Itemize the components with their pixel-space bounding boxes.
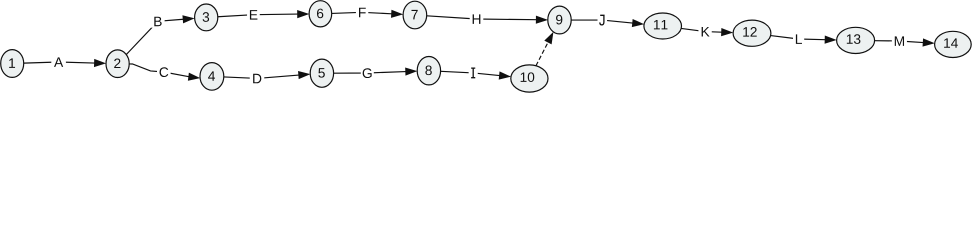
arrowhead into 10 (499, 72, 509, 79)
edge label L (793, 33, 804, 46)
arrowhead into 2 (95, 60, 105, 67)
arrowhead into 3 (183, 16, 193, 23)
edge label E (247, 8, 260, 21)
arrowhead into 6 (298, 11, 308, 18)
edge label C (157, 66, 171, 79)
edge 1->2 (A) wire (24, 62, 95, 63)
arrowhead into 5 (299, 72, 309, 79)
node 9 (548, 6, 571, 34)
node 14 (935, 31, 972, 57)
arrowhead into 4 (188, 73, 198, 80)
arrowhead into 14 (923, 39, 933, 46)
edge 12->13 (L) wire (771, 36, 826, 40)
arrowhead into 9 (545, 33, 553, 43)
edge label H (470, 13, 484, 26)
activity network diagram (0, 0, 972, 94)
arrowhead into 7 (392, 10, 402, 17)
edge 2->4 (C) wire (129, 64, 189, 77)
node 10 (511, 65, 548, 92)
edge 4->5 (D) wire (224, 75, 299, 78)
edge 3->6 (E) wire (218, 14, 298, 17)
edge 13->14 (M) wire (875, 41, 924, 43)
edge label K (698, 25, 711, 38)
edge 7->9 (H) wire (427, 16, 537, 20)
edge 11->12 (K) wire (681, 28, 722, 32)
edge label J (598, 14, 608, 27)
node 8 (417, 56, 440, 84)
arrowhead into 9 (536, 16, 546, 23)
edge 5->8 (G) wire (334, 72, 406, 74)
edge label F (356, 6, 368, 19)
edge label A (51, 56, 66, 69)
node 13 (837, 27, 875, 53)
edge label M (892, 35, 907, 48)
edge 2->3 (B) wire (126, 19, 183, 54)
arrowhead into 13 (825, 36, 835, 43)
edge 8->10 (I) wire (441, 71, 500, 75)
arrowhead into 8 (406, 68, 416, 75)
node 4 (200, 63, 224, 91)
edge label I (469, 67, 478, 80)
edge label B (151, 15, 165, 28)
node 6 (309, 1, 332, 27)
arrowhead into 11 (632, 20, 642, 27)
node 7 (403, 1, 427, 29)
edge label G (361, 67, 374, 80)
dashed dummy edge 10->9 wire (536, 42, 548, 66)
edge 6->7 (F) wire (332, 12, 392, 14)
edge label D (250, 72, 265, 85)
node 11 (644, 13, 682, 39)
node 12 (733, 20, 771, 46)
node 5 (310, 59, 333, 87)
arrowhead into 12 (722, 29, 732, 36)
node 3 (195, 4, 218, 31)
edge 9->11 (J) wire (571, 20, 633, 23)
node 2 (106, 50, 129, 78)
node 1 (1, 50, 24, 78)
